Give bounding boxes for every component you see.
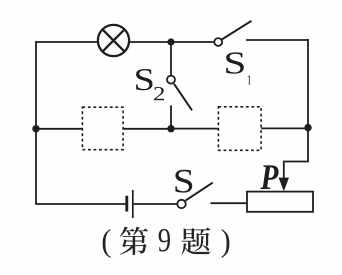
node B (junction middle / left rail) [32,125,39,132]
wire lamp to node A [129,41,171,43]
caption closing paren [222,229,230,258]
wire right vertical rail [307,39,309,161]
wire top left (left rail to lamp) [35,41,98,43]
rheostat slider arrow [279,178,289,192]
rheostat slider wire from right rail [284,162,309,181]
wire middle: node C to meter box 2 [171,128,218,130]
switch S1 lever (open) [222,21,252,40]
switch S2 lever (open) [174,84,192,111]
caption digit 9 [159,229,170,252]
meter box 2 (dashed placeholder) [218,107,261,151]
wire bottom: left rail to battery [36,203,125,205]
battery positive plate (long thin) [132,190,134,218]
rheostat body [247,192,313,212]
switch S pivot circle [177,200,185,208]
wire middle: box 2 to node D [261,127,308,129]
lamp L1 [98,25,129,56]
label S1 letter S [226,52,244,73]
label S2 subscript 2 [154,87,164,100]
label S2 letter S [136,69,152,90]
label P (rheostat slider) [260,165,278,189]
wire node A to switch S1 [171,41,214,43]
label S (bottom switch) [175,170,192,193]
switch S2 pivot circle [167,76,175,84]
wire left vertical rail [35,41,37,205]
switch S2 lower lead [170,105,172,128]
node D (junction middle / right rail) [304,124,311,131]
meter box 1 (dashed placeholder) [82,107,123,150]
caption character 题 [181,227,210,254]
wire switch S to rheostat [211,202,248,204]
wire top right (S1 to right rail) [246,39,309,41]
wire middle: node B to meter box 1 [36,128,82,130]
node C (junction S2 / middle wire) [167,125,174,132]
label S1 subscript 1 [248,75,251,84]
battery negative plate (short thick) [125,196,128,212]
switch S lever (open) [185,183,213,201]
caption character 第 [120,227,148,255]
switch S1 pivot circle [214,38,222,46]
node A (junction top: lamp / S1 / S2) [167,38,174,45]
wire middle: box 1 to node C [123,128,171,130]
wire battery to switch S [134,203,178,205]
caption opening paren [103,229,111,258]
switch S2 upper lead [170,42,172,76]
